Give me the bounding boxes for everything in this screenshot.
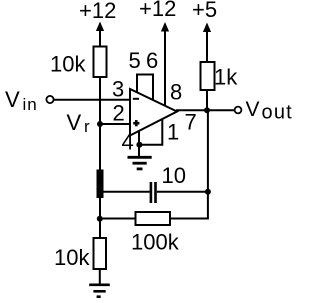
svg-text:3: 3 [112,77,124,102]
label Vr [67,110,91,136]
wire Vin to pin 3 [54,99,130,101]
wire 100k to node [100,218,136,220]
svg-text:+12: +12 [79,0,116,23]
power +12 arrow wire to pin 8 [161,22,169,107]
wire 10k to ground [99,269,101,284]
node pin1-pin4 junction dot [136,142,142,148]
svg-text:V: V [246,98,260,121]
svg-text:4: 4 [122,130,134,155]
power +12 arrow (left) [96,22,104,48]
ground (op-amp pins 1,4) [128,157,152,169]
wire 1k to output node [206,90,208,110]
resistor 10k (top) [94,47,107,78]
output terminal circle Vout [235,107,242,114]
resistor 10k (bottom) [94,238,107,269]
comparator U1 triangle [130,89,177,136]
label Vout [246,98,293,124]
minus sign (pin 3 input) [133,98,139,100]
label Vin [5,87,38,114]
svg-text:10k: 10k [50,52,86,77]
node bottom junction dot [97,216,103,222]
svg-text:1: 1 [167,120,179,145]
thermistor (filled element) [97,170,104,199]
input terminal circle Vin [46,96,53,103]
wire output node down to 100k [170,110,208,218]
svg-text:10: 10 [162,163,186,188]
svg-text:r: r [84,117,90,136]
pin 4 wire [138,131,140,156]
svg-text:2: 2 [113,101,125,126]
svg-text:+5: +5 [192,0,217,22]
svg-text:10k: 10k [54,245,90,270]
svg-text:in: in [23,95,38,114]
svg-text:out: out [262,102,293,124]
power +5 arrow [203,23,211,63]
pins 5 6 strap [137,75,153,101]
svg-text:+12: +12 [139,0,176,21]
svg-text:V: V [67,110,82,135]
svg-text:100k: 100k [131,230,180,255]
wire R10k bottom to thermistor [99,77,101,170]
svg-text:1k: 1k [214,65,238,90]
plus sign (pin 2 input) [133,120,139,126]
resistor 100k [136,212,171,225]
wire thermistor to capacitor [100,191,150,193]
node output junction dot [204,107,210,113]
wire op-amp output pin 7 [176,109,235,111]
svg-text:6: 6 [146,48,158,73]
node Vr junction dot [97,121,103,127]
svg-text:7: 7 [185,110,197,135]
svg-text:8: 8 [170,80,182,105]
capacitor 10 [150,182,157,203]
wire thermistor to bottom node and 10k [99,198,101,238]
wire Vr to pin 2 [100,123,130,125]
svg-text:5: 5 [129,48,141,73]
wire capacitor to feedback node [157,191,208,193]
svg-text:V: V [5,87,20,112]
pin 1 wire loop [140,119,163,144]
resistor 1k [201,62,215,90]
node feedback junction dot [205,189,211,195]
ground (bottom left) [89,285,110,297]
